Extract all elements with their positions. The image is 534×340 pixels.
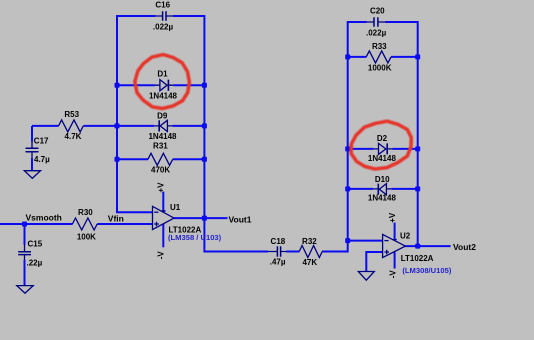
svg-text:(LM358 / U103): (LM358 / U103) bbox=[168, 233, 222, 242]
svg-text:C15: C15 bbox=[28, 239, 43, 248]
svg-text:U2: U2 bbox=[400, 232, 411, 241]
svg-text:1N4148: 1N4148 bbox=[368, 154, 397, 163]
svg-text:(LM308/U105): (LM308/U105) bbox=[402, 266, 451, 275]
svg-text:Vout1: Vout1 bbox=[229, 214, 252, 224]
svg-text:+V: +V bbox=[157, 182, 166, 193]
svg-text:Vsmooth: Vsmooth bbox=[26, 212, 62, 222]
svg-text:R33: R33 bbox=[372, 42, 387, 51]
svg-text:-V: -V bbox=[157, 251, 166, 260]
svg-text:Vout2: Vout2 bbox=[453, 242, 476, 252]
svg-text:C17: C17 bbox=[34, 137, 49, 146]
svg-text:1N4148: 1N4148 bbox=[148, 132, 177, 141]
svg-text:U1: U1 bbox=[170, 203, 181, 212]
svg-text:R32: R32 bbox=[302, 237, 317, 246]
svg-text:C18: C18 bbox=[271, 237, 286, 246]
svg-text:4.7µ: 4.7µ bbox=[34, 155, 50, 164]
svg-text:C20: C20 bbox=[370, 7, 385, 16]
svg-text:.022µ: .022µ bbox=[153, 23, 174, 32]
svg-text:C16: C16 bbox=[155, 1, 170, 10]
svg-text:470K: 470K bbox=[151, 166, 170, 175]
svg-text:D1: D1 bbox=[157, 69, 168, 78]
svg-text:1N4148: 1N4148 bbox=[368, 193, 397, 202]
svg-text:R31: R31 bbox=[153, 142, 168, 151]
svg-text:4.7K: 4.7K bbox=[65, 132, 82, 141]
svg-text:D9: D9 bbox=[157, 112, 168, 121]
svg-text:1N4148: 1N4148 bbox=[149, 91, 178, 100]
svg-text:1000K: 1000K bbox=[368, 64, 392, 73]
svg-text:-V: -V bbox=[389, 270, 398, 279]
svg-text:D10: D10 bbox=[375, 175, 390, 184]
svg-text:D2: D2 bbox=[377, 134, 388, 143]
svg-text:100K: 100K bbox=[77, 232, 96, 241]
svg-text:47K: 47K bbox=[302, 258, 317, 267]
svg-text:R30: R30 bbox=[78, 208, 93, 217]
svg-text:+V: +V bbox=[388, 212, 397, 223]
svg-text:.47µ: .47µ bbox=[270, 258, 286, 267]
svg-text:R53: R53 bbox=[64, 110, 79, 119]
svg-text:Vfin: Vfin bbox=[108, 214, 124, 224]
svg-text:.022µ: .022µ bbox=[366, 28, 387, 37]
svg-text:LT1022A: LT1022A bbox=[401, 254, 434, 263]
svg-text:.22µ: .22µ bbox=[27, 258, 43, 267]
